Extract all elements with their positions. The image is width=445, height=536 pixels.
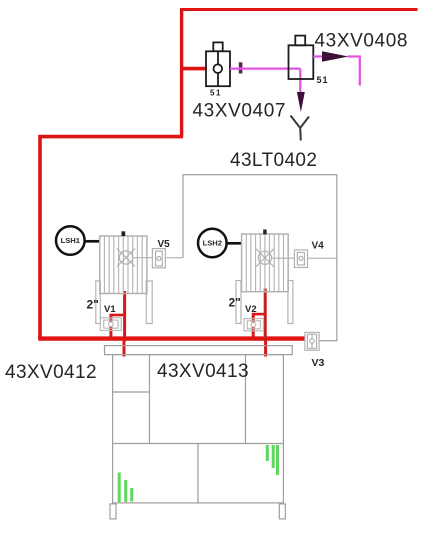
arrow: dark down arrowhead to strainer	[297, 92, 305, 112]
cabinet internal dividers	[113, 355, 284, 503]
wire: magenta outlet line turning down	[348, 57, 360, 86]
cabinet foot right	[279, 504, 285, 519]
wire: filter F2 to valve V4 and box edge	[271, 257, 336, 259]
spectacle blind tick on magenta line	[239, 62, 243, 73]
svg-text:43LT0402: 43LT0402	[230, 150, 317, 171]
svg-text:2": 2"	[87, 298, 99, 312]
filter F1 (striped vessel)	[100, 236, 147, 294]
wire: red bottom collection header	[38, 336, 308, 340]
wire: red leg through valve V1	[109, 314, 112, 341]
valve V1	[100, 318, 121, 331]
wire: red stub into cabinet lid (left)	[123, 341, 126, 357]
wire: red horizontal jog to left riser	[38, 135, 183, 139]
svg-text:43XV0408: 43XV0408	[315, 31, 409, 52]
wire: red stub into cabinet lid (right)	[264, 341, 267, 357]
svg-text:LSH1: LSH1	[61, 236, 81, 245]
cabinet foot left	[110, 504, 116, 519]
agitator circle of F1	[117, 249, 135, 267]
valve V4	[294, 250, 307, 268]
legs of filter F2	[236, 281, 293, 324]
wire: red leg through valve V2	[252, 313, 255, 341]
svg-text:51: 51	[317, 75, 329, 85]
cabinet body	[113, 355, 284, 503]
svg-text:LSH2: LSH2	[203, 239, 222, 248]
green level bars (bottom-left cell)	[119, 473, 132, 503]
wire: red left riser	[38, 135, 42, 339]
svg-text:V3: V3	[312, 357, 325, 369]
valve 43XV0408	[289, 36, 314, 79]
filter F2 (striped vessel)	[242, 234, 289, 292]
wire: LSH2 to filter F2	[226, 242, 241, 245]
agitator circle of F2	[256, 249, 274, 267]
wire: red drop from filter F2 to header	[264, 289, 267, 342]
svg-text:43XV0407: 43XV0407	[193, 100, 287, 121]
Y-strainer symbol	[291, 116, 310, 141]
svg-text:51: 51	[210, 89, 222, 98]
svg-text:43XV0413: 43XV0413	[157, 361, 249, 382]
wire: red branch to valve V2	[252, 313, 265, 316]
wire: red vertical drop from top header	[180, 8, 183, 137]
cabinet lid	[105, 346, 293, 355]
svg-text:43XV0412: 43XV0412	[5, 362, 97, 383]
svg-text:V5: V5	[158, 239, 171, 250]
wire: LSH1 to filter F1	[84, 240, 99, 243]
valve V3	[305, 332, 319, 350]
wire: red drop from filter F1 to header	[123, 291, 126, 341]
valve V2	[244, 319, 264, 331]
arrow: outlet arrowhead right of 43XV0408	[313, 55, 323, 57]
valve 43XV0407	[206, 42, 230, 86]
svg-text:V1: V1	[104, 304, 116, 315]
instrument bubble LSH2	[198, 229, 227, 258]
instrument bubble LSH1	[56, 226, 85, 255]
legs of filter F1	[96, 281, 152, 324]
wire: red branch to valve V1	[110, 314, 125, 317]
wire: filter F1 to valve V5	[133, 257, 184, 259]
wire: magenta line 0407 to 0408	[230, 67, 300, 69]
wire: red inlet to valve 43XV0407	[180, 67, 207, 71]
node: level box 43LT0402 boundary	[183, 175, 337, 341]
wire: magenta drop inside 0408	[299, 69, 301, 93]
vent tick on top of F1	[122, 231, 126, 236]
svg-text:V4: V4	[312, 241, 325, 252]
svg-text:V2: V2	[245, 304, 257, 315]
wire: top red header	[180, 8, 418, 11]
svg-text:2": 2"	[229, 296, 241, 310]
vent tick on top of F2	[263, 230, 266, 235]
green level bars (right cell)	[267, 445, 277, 475]
valve V5	[152, 249, 165, 268]
